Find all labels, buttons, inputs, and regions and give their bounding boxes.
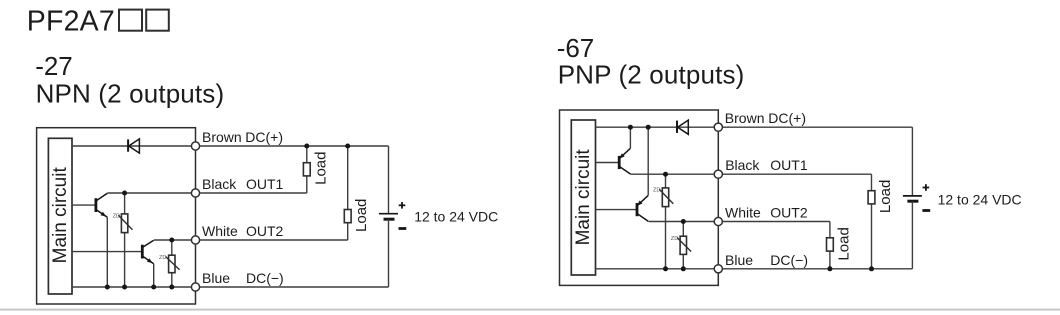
junction Q3 emitter / Brown (PNP) — [628, 125, 633, 130]
svg-text:OUT2: OUT2 — [770, 205, 808, 221]
diode D1 reverse-protection (NPN) — [127, 139, 129, 151]
wire White OUT2 (PNP) — [648, 221, 830, 223]
svg-text:OUT1: OUT1 — [246, 176, 284, 192]
junction ZD2 top / White (NPN) — [169, 238, 174, 243]
junction L4 / Blue (PNP) — [827, 266, 832, 271]
varistor ZD3 across OUT1 (PNP) — [665, 174, 667, 188]
terminal Brown (NPN) — [191, 142, 199, 150]
svg-text:White: White — [725, 205, 761, 221]
svg-text:NPN (2 outputs): NPN (2 outputs) — [36, 79, 225, 109]
varistor ZD4 across OUT2 (PNP) — [682, 222, 684, 237]
svg-text:Main circuit: Main circuit — [50, 167, 71, 264]
option square 2 — [146, 10, 169, 31]
svg-text:ZD: ZD — [653, 188, 660, 194]
svg-text:Main circuit: Main circuit — [573, 149, 594, 246]
junction ZD1 bottom / Blue (NPN) — [122, 285, 127, 290]
wire Q1 emitter to DC(-) (NPN) — [106, 217, 108, 287]
svg-text:12 to 24 VDC: 12 to 24 VDC — [414, 208, 498, 224]
junction L1 / Brown (NPN) — [304, 144, 309, 149]
svg-text:-27: -27 — [35, 51, 73, 81]
load resistor L2 on OUT2 (NPN) — [347, 146, 349, 210]
transistor Q3 PNP OUT1 — [596, 162, 620, 164]
main circuit block (NPN) — [48, 138, 72, 294]
varistor ZD2 across OUT2 (NPN) — [171, 240, 173, 255]
terminal Brown (PNP) — [714, 123, 722, 131]
wire Brown DC(+) (NPN) — [72, 145, 389, 147]
battery 12-24 VDC (NPN) — [388, 146, 390, 214]
junction L2 / Brown (NPN) — [345, 144, 350, 149]
svg-text:Black: Black — [725, 157, 760, 173]
battery 12-24 VDC (PNP) — [911, 127, 913, 196]
terminal White (NPN) — [191, 236, 199, 244]
wire Black OUT1 (NPN) — [107, 192, 306, 194]
wire Black OUT1 (PNP) — [630, 173, 871, 175]
junction ZD2 bottom / Blue (NPN) — [169, 285, 174, 290]
outer enclosure box (PNP switch) — [560, 110, 719, 285]
option square 1 — [119, 10, 142, 31]
wire Blue DC(-) (NPN) — [72, 286, 389, 288]
svg-text:White: White — [202, 223, 238, 239]
terminal Black (NPN) — [191, 189, 199, 197]
junction Q4 emitter / Brown (PNP) — [646, 125, 651, 130]
load resistor L3 on OUT1 (PNP) — [871, 174, 873, 191]
terminal Blue (NPN) — [191, 283, 199, 291]
junction ZD4 bottom / Blue (PNP) — [681, 266, 686, 271]
wire Q3 emitter to DC(+) (PNP) — [629, 127, 631, 148]
svg-text:Blue: Blue — [725, 252, 753, 268]
load resistor L4 on OUT2 (PNP) — [829, 222, 831, 238]
junction Q2 emitter / Blue (NPN) — [151, 285, 156, 290]
junction L3 / Blue (PNP) — [869, 266, 874, 271]
junction ZD1 top / Black (NPN) — [122, 191, 127, 196]
svg-text:DC(+): DC(+) — [768, 110, 806, 126]
svg-text:PNP (2 outputs): PNP (2 outputs) — [558, 60, 745, 90]
varistor ZD1 across OUT1 (NPN) — [124, 193, 126, 214]
svg-text:Brown: Brown — [725, 110, 765, 126]
svg-text:Black: Black — [202, 176, 237, 192]
svg-text:DC(−): DC(−) — [770, 252, 808, 268]
svg-text:OUT1: OUT1 — [770, 157, 808, 173]
svg-text:ZD: ZD — [113, 214, 120, 220]
wire White OUT2 (NPN) — [154, 239, 348, 241]
svg-text:Load: Load — [877, 180, 894, 213]
svg-text:-67: -67 — [557, 33, 595, 63]
transistor Q1 NPN OUT1 — [72, 204, 96, 206]
junction ZD3 bottom / Blue (PNP) — [663, 266, 668, 271]
svg-text:Load: Load — [353, 199, 370, 232]
load resistor L1 on OUT1 (NPN) — [306, 146, 308, 163]
transistor Q2 NPN OUT2 — [72, 251, 142, 253]
wire Q2 emitter to DC(-) (NPN) — [153, 264, 155, 287]
terminal Black (PNP) — [714, 170, 722, 178]
junction ZD3 top / Black (PNP) — [663, 172, 668, 177]
svg-text:Load: Load — [312, 152, 329, 185]
svg-text:Load: Load — [835, 227, 852, 260]
svg-text:OUT2: OUT2 — [246, 223, 284, 239]
junction Q1 emitter / Blue (NPN) — [105, 285, 110, 290]
junction ZD4 top / White (PNP) — [681, 219, 686, 224]
svg-text:12 to 24 VDC: 12 to 24 VDC — [938, 191, 1022, 207]
svg-text:DC(+): DC(+) — [245, 129, 283, 145]
svg-text:Blue: Blue — [202, 270, 230, 286]
separator rule — [0, 309, 1060, 311]
svg-text:Brown: Brown — [202, 129, 242, 145]
terminal Blue (PNP) — [714, 265, 722, 273]
svg-text:PF2A7: PF2A7 — [27, 6, 115, 38]
wire Blue DC(-) (PNP) — [596, 268, 913, 270]
transistor Q4 PNP OUT2 — [596, 209, 638, 211]
main circuit block (PNP) — [571, 120, 595, 275]
svg-text:ZD: ZD — [159, 255, 166, 261]
diode D2 reverse-protection (PNP) — [676, 121, 678, 133]
svg-text:ZD: ZD — [671, 236, 678, 242]
wire Q4 emitter to DC(+) (PNP) — [647, 127, 649, 195]
svg-text:DC(−): DC(−) — [246, 270, 284, 286]
outer enclosure box (NPN switch) — [37, 128, 196, 304]
wire Brown DC(+) (PNP) — [596, 126, 913, 128]
terminal White (PNP) — [714, 217, 722, 225]
